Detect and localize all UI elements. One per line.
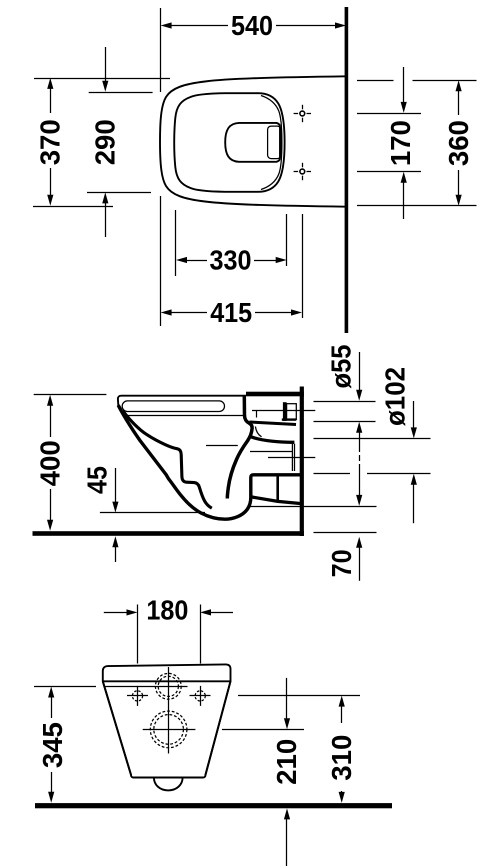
svg-text:370: 370 — [35, 119, 66, 165]
svg-text:170: 170 — [385, 120, 416, 166]
svg-text:ø102: ø102 — [380, 367, 411, 426]
svg-text:540: 540 — [231, 10, 273, 41]
svg-text:290: 290 — [90, 119, 121, 165]
svg-text:415: 415 — [210, 297, 252, 328]
svg-text:210: 210 — [271, 739, 302, 785]
svg-text:310: 310 — [326, 735, 357, 781]
svg-text:70: 70 — [326, 549, 357, 577]
svg-text:345: 345 — [37, 722, 68, 768]
svg-text:45: 45 — [82, 466, 113, 494]
svg-text:ø55: ø55 — [326, 345, 357, 389]
svg-text:400: 400 — [34, 440, 65, 486]
svg-text:330: 330 — [210, 244, 252, 275]
svg-text:360: 360 — [443, 120, 474, 166]
svg-text:180: 180 — [146, 595, 188, 626]
